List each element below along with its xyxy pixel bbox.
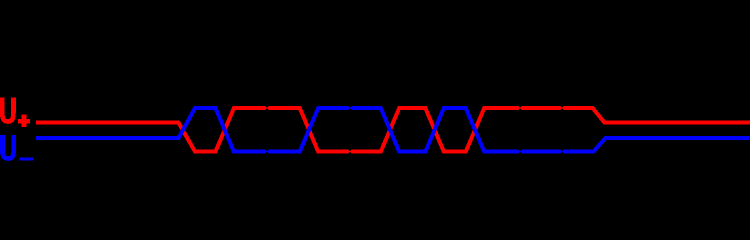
signal U+ red trace — [36, 108, 750, 152]
segment notch at x=267 — [265, 106, 269, 154]
label U- — [2, 135, 33, 160]
signal U- blue trace — [36, 108, 750, 152]
segment notch at x=520 — [518, 106, 522, 154]
segment notch at x=562 — [560, 106, 564, 154]
label U+ — [2, 98, 30, 127]
segment notch at x=350 — [348, 106, 352, 154]
